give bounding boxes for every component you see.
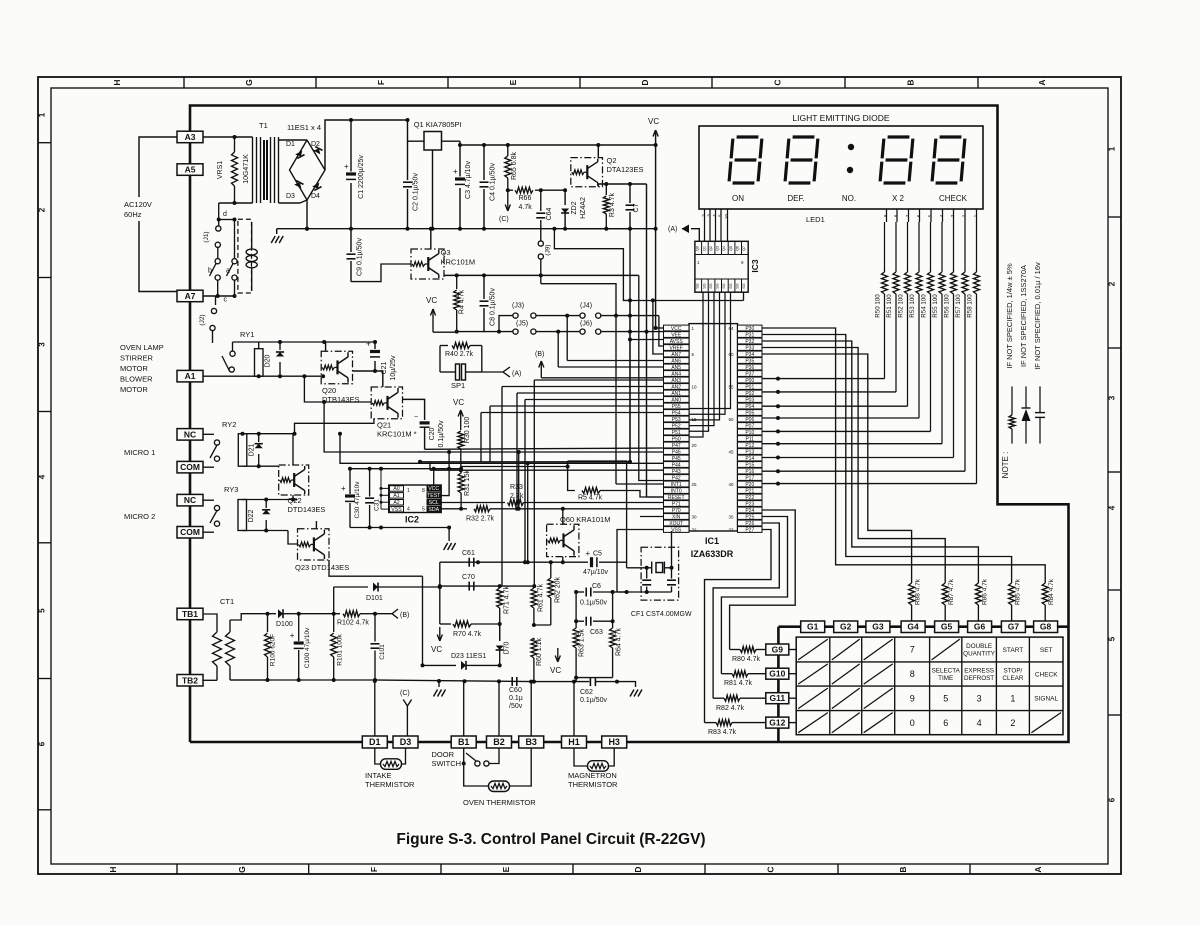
svg-text:ON: ON [732,194,744,203]
svg-text:KRC101M: KRC101M [441,258,476,267]
svg-text:8: 8 [910,669,915,679]
svg-text:C100 47µ/10v: C100 47µ/10v [304,627,311,668]
wire seg row 0 [762,378,885,380]
wire Q21 emitter out [403,399,425,420]
svg-text:(J2): (J2) [199,314,206,325]
svg-text:P36: P36 [745,365,754,371]
terminal TB2 y680 [177,675,203,687]
gnd line to IC3 [552,227,556,231]
supply ground bus [307,228,656,230]
route P25 to G10 [721,517,787,674]
svg-text:P24: P24 [745,508,754,514]
transistor Q22 DTD143ES [279,465,309,495]
svg-text:G8: G8 [1040,622,1052,632]
svg-text:45: 45 [729,450,735,455]
svg-text:Q5: Q5 [729,246,733,251]
svg-text:P21: P21 [745,488,754,494]
frame numbers right [1108,216,1121,218]
wire Q23 top [315,521,317,529]
svg-text:A5: A5 [185,165,196,175]
wire D22 rails [242,499,266,501]
capacitor C3 [458,143,462,147]
svg-text:D3: D3 [286,193,295,200]
resistor R63 1.5k [575,592,577,628]
svg-text:F: F [369,867,379,872]
svg-text:P13: P13 [745,449,754,455]
frame letters bottom [176,864,178,874]
svg-text:10µ/25v: 10µ/25v [390,355,397,381]
resistor R87 4.7k [942,583,948,605]
svg-text:c: c [224,297,228,304]
resistor R52 100 [907,222,909,272]
wire q23 base link [288,531,298,545]
svg-text:P42: P42 [672,475,681,481]
svg-text:Q60 KRA101M: Q60 KRA101M [560,515,610,524]
wire B2 drop [498,681,500,735]
relay coil D21 box [238,434,247,467]
wire cf1 gnd rail [627,591,672,593]
wire seg row 2 [762,405,908,407]
connector row J3 J4 [499,316,513,332]
wire int1 from 616 [616,483,664,485]
schematic border [190,106,1069,743]
led colon [848,144,854,150]
svg-text:SIGNAL: SIGNAL [1034,696,1058,703]
svg-text:b: b [208,268,212,275]
resistor R88 4.7k [909,583,915,605]
svg-text:E: E [508,79,518,85]
svg-text:C64: C64 [546,207,553,220]
svg-text:A1: A1 [185,371,196,381]
svg-text:A: A [1037,79,1047,85]
svg-text:D1: D1 [286,141,295,148]
resistor R65 6.8k [506,143,510,147]
svg-text:−: − [414,414,418,421]
svg-text:G3: G3 [872,622,884,632]
svg-text:P26: P26 [745,521,754,527]
svg-text:+: + [586,549,591,558]
wire SCL row R33 [441,502,506,504]
svg-text:R55 100: R55 100 [932,294,939,318]
svg-text:P44: P44 [672,462,681,468]
route P26 to G11 [713,523,779,698]
wire Q3 emitter row [444,274,639,276]
wire IC2 left pins [381,487,390,489]
svg-text:P52: P52 [672,423,681,429]
svg-text:P27: P27 [745,527,754,533]
terminal G7 [1001,621,1025,633]
bus VC vertical [655,145,657,328]
svg-text:D100: D100 [276,621,293,628]
svg-text:G: G [237,866,247,873]
svg-text:DOOR: DOOR [432,750,455,759]
terminal G5 [935,621,959,633]
keyboard diagonals [798,639,828,660]
svg-text:3: 3 [1108,395,1117,400]
svg-text:SCL: SCL [429,500,439,506]
svg-text:SG: SG [722,283,726,289]
svg-text:C9 0.1µ/50v: C9 0.1µ/50v [357,238,364,276]
wire Q22 base from COM [204,466,215,468]
relay coil D22 box [238,500,247,531]
wire VCC rail ic2 [350,468,461,470]
ground 439 [438,681,440,687]
wire q21 emitter bottom [295,419,374,434]
svg-text:25: 25 [692,482,698,487]
svg-text:32: 32 [692,528,698,533]
svg-text:P07: P07 [745,423,754,429]
svg-text:5: 5 [422,507,425,513]
svg-text:DTD143ES: DTD143ES [288,505,326,514]
wire A3 row [204,136,253,138]
svg-text:R83 4.7k: R83 4.7k [708,729,737,736]
svg-text:Q20: Q20 [322,386,336,395]
svg-text:VSS: VSS [391,507,402,513]
capacitor C2 [406,227,410,231]
terminal H3 [602,736,627,748]
svg-text:/50v: /50v [509,703,523,710]
crystal symbol [656,563,663,573]
wire seg row 4 [762,430,931,432]
svg-text:R86 4.7k: R86 4.7k [981,578,988,605]
wire Q1 gnd [432,150,434,229]
svg-text:C60: C60 [509,687,522,694]
terminal G11 [766,693,789,704]
relay coil RY0 [246,249,257,255]
wire A1 to Q21 base [302,374,306,378]
ic IC1 IZA633DR [689,324,738,531]
svg-text:P00: P00 [745,378,754,384]
resistor R83 4.7k [716,720,732,726]
resistor R31 15k [460,469,462,473]
terminal D1 [362,736,387,748]
note resistor symbol [1011,429,1013,444]
svg-text:SP1: SP1 [451,381,465,390]
svg-text:(A): (A) [512,371,521,378]
svg-text:64: 64 [729,326,735,331]
svg-text:0.1µ/50v: 0.1µ/50v [580,697,607,704]
svg-text:D22: D22 [248,509,255,522]
svg-text:60: 60 [729,352,735,357]
svg-text:NOTE :: NOTE : [1001,452,1010,479]
svg-text:CT1: CT1 [220,597,234,606]
led digit 2 [785,137,818,183]
wire Q1 out VC [442,140,461,142]
wire xin row [640,516,664,518]
svg-text:4: 4 [1108,505,1117,510]
node AC bracket [139,137,180,197]
svg-text:55: 55 [729,385,735,390]
svg-text:D21: D21 [249,443,256,456]
svg-text:10G471K: 10G471K [243,154,250,184]
svg-text:P30: P30 [745,326,754,332]
svg-text:B: B [906,79,916,85]
svg-text:(B): (B) [535,351,544,358]
svg-text:CHECK: CHECK [939,194,968,203]
led digit 4 [932,137,965,183]
svg-text:D: D [640,79,650,85]
svg-text:P55: P55 [672,404,681,410]
svg-text:33: 33 [729,528,735,533]
wire drop j6 [557,332,559,367]
svg-text:+: + [290,631,295,640]
svg-text:C1 2200µ/25v: C1 2200µ/25v [358,155,365,199]
terminal G12 [766,717,789,728]
svg-text:30: 30 [692,515,698,520]
svg-text:C31: C31 [374,499,381,511]
ic3 to ic1 wires [689,292,703,437]
wire p51 p50 from 628 [629,461,631,463]
svg-text:2: 2 [1010,718,1015,728]
svg-text:P04: P04 [745,404,754,410]
terminal H1 [562,736,587,748]
terminal B3 [519,736,544,748]
wire 562 row [440,561,588,563]
svg-text:D3: D3 [400,737,412,747]
svg-text:D101: D101 [366,595,383,602]
svg-text:4.7k: 4.7k [519,204,533,211]
led digit 1 [729,137,762,183]
wire q22 base link [266,480,279,500]
node B arrow left [392,609,398,618]
svg-text:AN7: AN7 [671,352,681,358]
wire seg row 1 [762,391,896,393]
terminal G10 [766,668,789,679]
wire RY2 coil top [242,433,244,435]
frame letters top [183,77,185,88]
svg-text:INT0: INT0 [671,488,682,494]
svg-text:P31: P31 [745,332,754,338]
svg-text:R5 4.7k: R5 4.7k [578,495,603,502]
svg-text:B3: B3 [525,737,537,747]
svg-text:HZ4A2: HZ4A2 [580,197,587,219]
svg-text:P16: P16 [745,469,754,475]
terminal A7 y296 [177,290,203,302]
ground C62 [617,682,636,687]
wire Q20 base row to Q21 [353,371,383,387]
svg-text:1: 1 [38,112,47,117]
wire seg row 8 [762,483,977,485]
wire B1 drop [463,681,465,735]
crystal caps [646,568,648,579]
wire C20 row to IC1 [425,448,664,449]
svg-text:15: 15 [692,417,698,422]
terminal G9 [766,644,789,655]
svg-text:P17: P17 [745,475,754,481]
svg-text:STOP/: STOP/ [1004,668,1023,675]
svg-text:RY1: RY1 [240,330,254,339]
wire an5 row [558,366,663,368]
wire SDA row R32 [441,508,468,510]
resistor R64 4.7k [612,592,614,628]
ic1 left pin boxes [664,325,690,331]
wire relay row 463 [340,434,528,563]
svg-text:R53 100: R53 100 [909,294,916,318]
svg-text:5: 5 [943,694,948,704]
svg-text:R85 4.7k: R85 4.7k [1015,578,1022,605]
capacitor C63 [576,620,584,622]
oven thermistor [464,764,489,787]
svg-text:6: 6 [38,741,47,746]
capacitor C64 [540,190,542,211]
svg-text:35: 35 [729,515,735,520]
svg-text:NC: NC [184,429,196,439]
capacitor C7 [629,184,631,203]
resistor R81 4.7k [732,671,748,677]
svg-text:6: 6 [943,718,948,728]
capacitor C1 [349,118,353,122]
terminal NC y434 [177,429,203,441]
svg-text:R102 4.7k: R102 4.7k [337,620,369,627]
note diode symbol [1025,421,1027,444]
svg-text:P34: P34 [745,352,754,358]
svg-text:SDA: SDA [428,507,439,513]
svg-text:T1: T1 [259,121,268,130]
wire VRS1 bottom row [219,202,253,204]
svg-text:Q3: Q3 [441,248,451,257]
resistor R55 100 [941,222,943,272]
svg-text:TB1: TB1 [182,609,198,619]
svg-text:QUANTITY: QUANTITY [963,650,996,657]
svg-text:R87 4.7k: R87 4.7k [948,578,955,605]
svg-text:P23: P23 [745,501,754,507]
capacitor C8 [483,275,485,299]
svg-text:VC: VC [426,296,437,305]
capacitor C100 [298,614,300,641]
resistor R51 100 [895,222,897,272]
svg-text:Q23 DTD143ES: Q23 DTD143ES [295,563,349,572]
svg-text:P47: P47 [672,443,681,449]
resistor R40 2.7k loop [375,342,440,346]
svg-text:R84 4.7k: R84 4.7k [1048,578,1055,605]
svg-text:R62 20k: R62 20k [555,576,562,603]
diode D4 [312,183,321,191]
svg-text:R101 100k: R101 100k [337,634,344,666]
svg-text:INTAKE: INTAKE [365,771,392,780]
capacitor C31 [369,469,371,497]
svg-text:P43: P43 [672,469,681,475]
svg-text:+: + [366,340,371,349]
svg-text:P10: P10 [745,430,754,436]
svg-text:R50 100: R50 100 [875,294,882,318]
svg-text:IF NOT SPECIFIED, 0.01µ / 16v: IF NOT SPECIFIED, 0.01µ / 16v [1033,262,1042,370]
terminal G6 [968,621,992,633]
svg-text:C101: C101 [379,644,386,660]
svg-text:50: 50 [729,417,735,422]
svg-text:R71 4.7k: R71 4.7k [504,585,511,614]
svg-text:CLEAR: CLEAR [1002,675,1023,682]
svg-text:IC3: IC3 [750,259,760,273]
led left pins [704,209,706,241]
keyboard grid [796,637,1063,735]
svg-text:R40 2.7k: R40 2.7k [445,351,474,358]
wire IC2 vss gnd bus [350,527,449,529]
svg-text:R51 100: R51 100 [886,294,893,318]
svg-text:DTA123ES: DTA123ES [607,165,644,174]
terminal A5 y169 [177,164,203,176]
wire seg row 5 [762,443,942,445]
svg-text:G: G [244,79,254,86]
svg-text:G4: G4 [907,622,919,632]
svg-text:D1: D1 [369,737,381,747]
svg-text:CHECK: CHECK [1035,671,1058,678]
label VC q60 bottom [557,648,559,662]
svg-text:C4 0.1µ/50v: C4 0.1µ/50v [490,163,497,201]
svg-text:X 2: X 2 [892,194,905,203]
interlock d contact [218,203,220,226]
svg-text:(J1): (J1) [203,231,210,242]
svg-text:0: 0 [910,718,915,728]
svg-text:0.1µ: 0.1µ [509,695,523,702]
resistor R85 4.7k [1009,583,1015,605]
svg-text:R82 4.7k: R82 4.7k [716,705,745,712]
wire Q23 collector out [329,560,423,576]
svg-text:H3: H3 [608,737,620,747]
wire Q2 out rail [598,184,646,187]
zener ZD2 HZ4A2 [564,190,566,205]
svg-text:F: F [376,80,386,85]
svg-text:Q6: Q6 [736,246,740,251]
terminal G3 [866,621,890,633]
svg-text:R58 100: R58 100 [967,294,974,318]
svg-text:+: + [344,162,349,171]
label VC r70 [439,627,441,641]
bus 681 long [230,679,375,681]
svg-text:C: C [773,79,783,85]
svg-text:EXPRESS: EXPRESS [964,668,994,675]
resistor R80 4.7k [740,647,756,653]
wire VC drop [432,329,434,332]
svg-text:A7: A7 [185,291,196,301]
svg-text:XIN: XIN [672,514,681,520]
wire IC2 vcc stub [433,469,435,485]
svg-text:SG: SG [696,283,700,289]
svg-text:Q0: Q0 [696,246,700,251]
svg-text:OVEN THERMISTOR: OVEN THERMISTOR [463,798,536,807]
svg-text:2: 2 [38,207,47,212]
wire stair verticals [533,380,535,586]
svg-text:XOUT: XOUT [669,521,683,527]
resistor R50 100 [884,222,886,272]
wire seg row 7 [762,470,965,472]
svg-text:VREF: VREF [670,345,683,351]
resistor R53 100 [918,222,920,272]
svg-text:D2: D2 [311,141,320,148]
diode D21 [258,434,260,442]
wire top in to Q1 [408,120,425,141]
wire an6 row [567,360,663,362]
ic IC3 block [695,241,748,292]
svg-text:TEST: TEST [427,493,441,499]
wire B3 drop [530,682,532,736]
svg-text:START: START [1003,647,1024,654]
resistor R66 4.7k [508,189,513,191]
ground main [277,228,307,230]
wire row 613 right [299,613,340,615]
wire r61 r62 join [534,624,551,626]
svg-text:4: 4 [977,718,982,728]
svg-text:RY2: RY2 [222,420,236,429]
resistor R61 4.7k [533,586,535,588]
svg-text:10: 10 [724,214,729,220]
svg-text:P06: P06 [745,417,754,423]
svg-text:VSS: VSS [671,527,682,533]
svg-text:P32: P32 [745,339,754,345]
svg-text:R54 100: R54 100 [921,294,928,318]
magnetron thermistor [574,749,588,767]
resistor R4 4.7k [456,275,458,289]
transistor Q20 DTB143ES [321,351,352,384]
